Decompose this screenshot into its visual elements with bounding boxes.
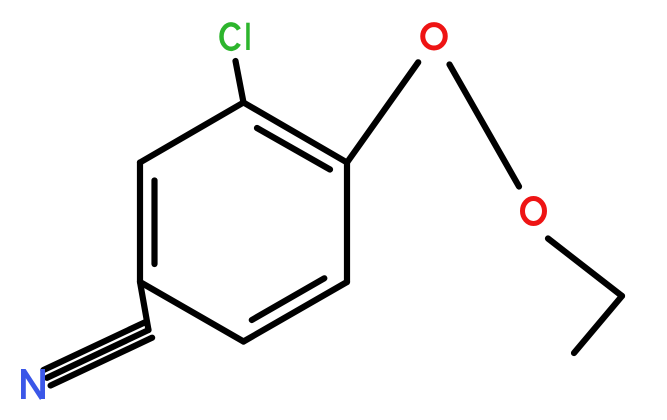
- label O1: [423, 25, 446, 48]
- label O2: [523, 199, 545, 224]
- wire ring inner double A-B: [257, 128, 330, 170]
- label N: [23, 369, 42, 399]
- wire ring edge D-E: [140, 282, 244, 342]
- label Cl letter l: [246, 23, 250, 50]
- wire ring inner double E-F: [151, 181, 157, 265]
- wire bond O2 to CH2: [548, 239, 622, 297]
- wire bond O1 to O2: [450, 65, 520, 187]
- wire bond E to CH2: [140, 282, 149, 330]
- wire ring edge E-F: [137, 163, 143, 283]
- wire ring edge A-B: [244, 103, 348, 163]
- wire bond B to O1: [347, 62, 418, 162]
- wire bond CH2 to CH3: [574, 296, 622, 353]
- wire ring edge F-A: [140, 103, 244, 163]
- label Cl letter C: [221, 24, 238, 48]
- wire ring edge C-D: [244, 282, 348, 342]
- wire nitrile triple bond line 1: [47, 330, 149, 378]
- wire ring edge B-C: [344, 163, 350, 283]
- wire bond A to Cl: [236, 61, 244, 103]
- wire ring inner double C-D: [252, 278, 324, 320]
- wire nitrile triple bond line 2: [43, 322, 144, 370]
- wire nitrile triple bond line 3: [51, 338, 153, 386]
